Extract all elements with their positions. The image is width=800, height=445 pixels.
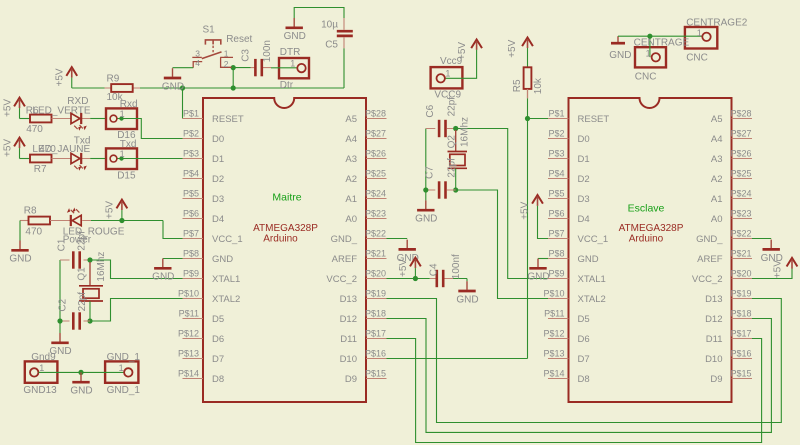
svg-text:P$23: P$23 bbox=[731, 209, 752, 219]
U1 pin P$19 (D13) stub bbox=[366, 298, 387, 300]
svg-text:2: 2 bbox=[224, 59, 229, 69]
svg-text:P$15: P$15 bbox=[365, 369, 386, 379]
capacitor C1 leads bbox=[60, 259, 90, 261]
capacitor C2 leads bbox=[60, 320, 90, 322]
wire C1 left to C2 left vertical bbox=[59, 260, 61, 321]
+5V supply symbol above Vcc9 bbox=[457, 40, 482, 61]
svg-text:P$20: P$20 bbox=[731, 269, 752, 279]
svg-text:P$3: P$3 bbox=[183, 149, 199, 159]
svg-text:DTR: DTR bbox=[280, 47, 301, 58]
svg-text:P$18: P$18 bbox=[731, 309, 752, 319]
svg-text:+5V: +5V bbox=[457, 42, 468, 60]
svg-text:P$2: P$2 bbox=[548, 129, 564, 139]
svg-text:P$5: P$5 bbox=[548, 189, 564, 199]
svg-text:AREF: AREF bbox=[332, 254, 358, 265]
U2 pin P$14 (D8) stub bbox=[548, 378, 569, 380]
wire reset net horizontal bbox=[140, 87, 344, 89]
capacitor C3 leads bbox=[251, 67, 272, 69]
U1 pin P$25 (A2) stub bbox=[366, 178, 387, 180]
ground below C7 bbox=[415, 200, 437, 224]
svg-text:P$27: P$27 bbox=[365, 129, 386, 139]
svg-text:D3: D3 bbox=[578, 194, 590, 205]
svg-text:P$28: P$28 bbox=[365, 109, 386, 119]
ground at IC1 P$8 bbox=[152, 259, 174, 283]
svg-text:100n: 100n bbox=[262, 40, 273, 62]
svg-text:GND: GND bbox=[284, 31, 306, 42]
capacitor C1 plates bbox=[73, 251, 79, 268]
resistor R5 leads bbox=[527, 89, 529, 99]
svg-text:P$6: P$6 bbox=[548, 209, 564, 219]
U2 pin P$16 (D10) stub bbox=[732, 358, 753, 360]
connector CENTRAGE2 pin circle bbox=[702, 33, 710, 41]
U1 pin P$2 (D0) stub bbox=[183, 138, 204, 140]
resistor R7 body bbox=[30, 155, 52, 163]
junction C1 / Q1 top bbox=[87, 257, 92, 262]
svg-text:XTAL2: XTAL2 bbox=[212, 294, 240, 305]
svg-text:P$15: P$15 bbox=[731, 369, 752, 379]
wire switch pin2 down to reset net bbox=[232, 68, 234, 88]
svg-text:D6: D6 bbox=[578, 334, 590, 345]
U2 pin P$24 (A1) stub bbox=[732, 198, 753, 200]
wire R8 to ground bbox=[19, 221, 21, 241]
junction C2 / Q1 bottom bbox=[87, 318, 92, 323]
ground at IC2 P$22 bbox=[761, 240, 783, 264]
svg-text:P$9: P$9 bbox=[183, 269, 199, 279]
svg-text:P$21: P$21 bbox=[365, 249, 386, 259]
svg-text:R7: R7 bbox=[34, 164, 47, 175]
LED yellow (TXD) bbox=[71, 153, 87, 171]
svg-text:P$24: P$24 bbox=[731, 189, 752, 199]
svg-text:P$8: P$8 bbox=[548, 249, 564, 259]
svg-text:22pf: 22pf bbox=[77, 292, 88, 312]
svg-text:C1: C1 bbox=[57, 238, 68, 251]
U2 pin P$6 (D4) stub bbox=[548, 218, 569, 220]
junction switch pin 2 / C3 bbox=[231, 65, 236, 70]
svg-text:RESET: RESET bbox=[578, 114, 610, 125]
svg-text:P$22: P$22 bbox=[731, 229, 752, 239]
capacitor C3 plates bbox=[255, 59, 261, 76]
resistor R8 body bbox=[29, 217, 51, 225]
svg-text:Rxd: Rxd bbox=[120, 99, 138, 110]
svg-text:P$19: P$19 bbox=[365, 289, 386, 299]
connector GND_1 pin circle bbox=[124, 368, 132, 376]
svg-text:P$26: P$26 bbox=[365, 149, 386, 159]
U1 pin P$21 (AREF) stub bbox=[366, 258, 387, 260]
+5V supply symbol LED_ROUGE row bbox=[105, 200, 128, 221]
svg-text:C3: C3 bbox=[240, 49, 251, 62]
junction C7 / Q2 bottom bbox=[453, 187, 458, 192]
svg-text:A3: A3 bbox=[711, 154, 723, 165]
svg-text:Q2: Q2 bbox=[447, 135, 458, 149]
svg-text:D13: D13 bbox=[340, 294, 357, 305]
U1 pin P$11 (D5) stub bbox=[183, 318, 204, 320]
U1 pin P$12 (D6) stub bbox=[183, 338, 204, 340]
svg-text:P$20: P$20 bbox=[365, 269, 386, 279]
svg-text:Q1: Q1 bbox=[77, 267, 88, 281]
U2 pin P$27 (A4) stub bbox=[732, 138, 753, 140]
connector CENTRAGE2 box bbox=[685, 27, 717, 49]
capacitor C4 plates bbox=[437, 270, 443, 287]
svg-text:R5: R5 bbox=[512, 79, 523, 92]
svg-text:1: 1 bbox=[39, 363, 44, 373]
svg-text:D9: D9 bbox=[345, 374, 357, 385]
U2 pin P$21 (AREF) stub bbox=[732, 258, 753, 260]
svg-text:A1: A1 bbox=[711, 194, 723, 205]
svg-text:A4: A4 bbox=[345, 134, 357, 145]
svg-text:D11: D11 bbox=[706, 334, 723, 345]
svg-text:A3: A3 bbox=[345, 154, 357, 165]
connector Gnd9 box bbox=[25, 361, 58, 382]
wire crystal top to IC2 XTAL1 (P$9) bbox=[456, 129, 549, 279]
wire P$22 (GND_) to ground bbox=[387, 238, 408, 240]
svg-text:A2: A2 bbox=[711, 174, 723, 185]
ground between connectors bbox=[70, 372, 92, 396]
ground at CENTRAGE bbox=[609, 36, 631, 61]
svg-text:1: 1 bbox=[120, 109, 125, 119]
svg-text:GND: GND bbox=[527, 272, 549, 283]
svg-text:D2: D2 bbox=[212, 174, 224, 185]
wire crystal bottom to IC2 XTAL2 (P$10) bbox=[456, 190, 549, 299]
connector Vcc9 pin circle bbox=[437, 74, 445, 82]
svg-text:10µ: 10µ bbox=[321, 20, 338, 31]
wire C5 top to ground bbox=[294, 8, 344, 19]
svg-text:P$3: P$3 bbox=[548, 149, 564, 159]
resistor R7 / LED leads bbox=[52, 158, 91, 160]
svg-text:+5V: +5V bbox=[398, 259, 409, 277]
U2 pin P$2 (D0) stub bbox=[548, 138, 569, 140]
svg-text:A2: A2 bbox=[345, 174, 357, 185]
svg-text:Esclave: Esclave bbox=[628, 202, 665, 214]
connector Vcc9 box bbox=[431, 67, 463, 88]
ground at IC1 P$22 bbox=[397, 240, 419, 264]
+5V supply symbol LED_VERTE row bbox=[2, 98, 25, 119]
svg-text:XTAL1: XTAL1 bbox=[578, 274, 606, 285]
svg-text:P$26: P$26 bbox=[731, 149, 752, 159]
svg-text:P$7: P$7 bbox=[183, 229, 199, 239]
U2 pin P$18 (D12) stub bbox=[732, 318, 753, 320]
svg-text:470: 470 bbox=[26, 124, 43, 135]
wire switch pin4 to ground bbox=[173, 67, 194, 69]
wire P$20 (VCC_2) to +5V and C4 bbox=[387, 278, 430, 280]
wire IC2 P$20 (VCC_2) to +5V bbox=[752, 268, 792, 278]
svg-text:470: 470 bbox=[39, 144, 56, 155]
svg-text:P$16: P$16 bbox=[365, 349, 386, 359]
svg-text:XTAL2: XTAL2 bbox=[578, 294, 606, 305]
connector DTR box bbox=[279, 58, 309, 78]
resistor R9 leads bbox=[105, 87, 141, 89]
svg-text:CENTRAGE2: CENTRAGE2 bbox=[686, 17, 748, 28]
svg-text:P$1: P$1 bbox=[548, 109, 564, 119]
crystal Q1 bottom lead bbox=[89, 301, 91, 321]
svg-text:RESET: RESET bbox=[212, 114, 244, 125]
svg-text:1: 1 bbox=[697, 28, 702, 38]
svg-text:D10: D10 bbox=[705, 354, 722, 365]
svg-text:VCC_2: VCC_2 bbox=[326, 274, 357, 285]
svg-text:16Mhz: 16Mhz bbox=[96, 252, 107, 282]
svg-text:D13: D13 bbox=[705, 294, 722, 305]
svg-text:A0: A0 bbox=[345, 214, 357, 225]
svg-text:D8: D8 bbox=[578, 374, 590, 385]
U1 pin P$7 (VCC_1) stub bbox=[183, 238, 204, 240]
svg-text:VCC_1: VCC_1 bbox=[212, 234, 243, 245]
svg-text:10k: 10k bbox=[533, 77, 544, 94]
IC U2 ATMEGA328P Arduino (Esclave) body bbox=[569, 98, 732, 402]
svg-text:1: 1 bbox=[119, 363, 124, 373]
wire LED to D16 bbox=[90, 118, 106, 120]
U1 pin P$8 (GND) stub bbox=[183, 258, 204, 260]
svg-text:P$10: P$10 bbox=[178, 289, 199, 299]
svg-text:D6: D6 bbox=[212, 334, 224, 345]
svg-text:C5: C5 bbox=[325, 40, 338, 51]
svg-text:Dtr: Dtr bbox=[280, 80, 294, 91]
+5V supply symbol LED_JAUNE row bbox=[2, 138, 25, 159]
svg-text:D7: D7 bbox=[578, 354, 590, 365]
svg-text:GND: GND bbox=[162, 81, 184, 92]
ground below R8 bbox=[9, 241, 31, 265]
ground above C5 bbox=[284, 18, 306, 42]
wire C7 left down to ground bbox=[425, 190, 427, 200]
svg-text:GND: GND bbox=[415, 214, 437, 225]
svg-text:3: 3 bbox=[195, 49, 200, 59]
svg-text:C2: C2 bbox=[57, 298, 68, 311]
svg-text:+5V: +5V bbox=[773, 260, 784, 278]
crystal Q2 bottom lead bbox=[455, 169, 457, 191]
svg-text:GND_: GND_ bbox=[696, 234, 723, 245]
svg-text:D10: D10 bbox=[340, 354, 357, 365]
svg-text:P$27: P$27 bbox=[731, 129, 752, 139]
wire to IC2 P$1 (RESET) bbox=[528, 118, 549, 120]
svg-text:P$18: P$18 bbox=[365, 309, 386, 319]
U1 pin P$23 (A0) stub bbox=[366, 218, 387, 220]
+5V supply symbol at IC1 P$20 bbox=[398, 258, 421, 279]
wire junction to C3 bbox=[233, 67, 250, 69]
svg-text:P$24: P$24 bbox=[365, 189, 386, 199]
U2 pin P$4 (D2) stub bbox=[548, 178, 569, 180]
capacitor C6 plates bbox=[439, 120, 445, 137]
U1 pin P$17 (D11) stub bbox=[366, 338, 387, 340]
wire C6 left to C7 left vertical bbox=[425, 129, 427, 191]
wire IC1 P$16 (D10) to slave reset bbox=[387, 358, 528, 360]
U2 pin P$26 (A3) stub bbox=[732, 158, 753, 160]
U1 pin P$24 (A1) stub bbox=[366, 198, 387, 200]
svg-text:CENTRAGE: CENTRAGE bbox=[634, 38, 690, 49]
svg-text:D9: D9 bbox=[710, 374, 722, 385]
resistor R6 body bbox=[30, 115, 52, 123]
connector D16 pin circle bbox=[110, 115, 117, 122]
U2 pin P$9 (XTAL1) stub bbox=[548, 278, 569, 280]
U1 pin P$13 (D7) stub bbox=[183, 358, 204, 360]
svg-text:D1: D1 bbox=[578, 154, 590, 165]
svg-text:GND13: GND13 bbox=[23, 385, 57, 396]
connector CENTRAGE box bbox=[635, 47, 666, 67]
svg-text:+5V: +5V bbox=[520, 201, 531, 219]
+5V supply symbol at IC2 P$7 bbox=[520, 195, 543, 220]
svg-text:D8: D8 bbox=[212, 374, 224, 385]
svg-text:XTAL1: XTAL1 bbox=[212, 274, 240, 285]
svg-text:P$7: P$7 bbox=[548, 229, 564, 239]
U1 pin P$4 (D2) stub bbox=[183, 178, 204, 180]
U1 pin P$22 (GND_) stub bbox=[366, 238, 387, 240]
svg-text:P$13: P$13 bbox=[178, 349, 199, 359]
svg-text:22pf: 22pf bbox=[77, 231, 88, 251]
wire bus D11-MOSI (IC1 P$17 to IC2 P$17) bbox=[387, 339, 762, 443]
svg-text:P$19: P$19 bbox=[731, 289, 752, 299]
svg-text:1: 1 bbox=[290, 59, 295, 69]
svg-text:VCC_2: VCC_2 bbox=[692, 274, 723, 285]
wire C4 to ground bbox=[453, 279, 467, 282]
svg-text:A1: A1 bbox=[345, 194, 357, 205]
U2 pin P$17 (D11) stub bbox=[732, 338, 753, 340]
svg-text:P$11: P$11 bbox=[179, 309, 199, 319]
capacitor C5 leads bbox=[343, 18, 345, 48]
junction A on reset net bbox=[180, 85, 185, 90]
svg-text:+5V: +5V bbox=[507, 39, 518, 57]
svg-text:VCC_1: VCC_1 bbox=[578, 234, 609, 245]
svg-text:P$22: P$22 bbox=[365, 229, 386, 239]
svg-text:Txd: Txd bbox=[120, 139, 137, 150]
wire +5V to R7 bbox=[20, 158, 31, 160]
wire Gnd9 to GND_1 bbox=[39, 371, 124, 373]
connector CENTRAGE pin circle bbox=[652, 53, 660, 61]
svg-text:CNC: CNC bbox=[686, 53, 708, 64]
wire C3 to DTR pin bbox=[271, 67, 297, 69]
U1 pin P$27 (A4) stub bbox=[366, 138, 387, 140]
capacitor C6 leads bbox=[426, 128, 456, 130]
U1 pin P$15 (D9) stub bbox=[366, 378, 387, 380]
svg-text:+5V: +5V bbox=[2, 139, 13, 157]
svg-text:GND: GND bbox=[578, 254, 599, 265]
junction P$20 / +5V / C4 bbox=[413, 276, 418, 281]
svg-text:P$6: P$6 bbox=[183, 209, 199, 219]
svg-text:P$5: P$5 bbox=[183, 189, 199, 199]
svg-text:S1: S1 bbox=[203, 24, 216, 35]
svg-text:P$13: P$13 bbox=[543, 349, 564, 359]
U1 pin P$28 (A5) stub bbox=[366, 118, 387, 120]
U2 pin P$7 (VCC_1) stub bbox=[548, 238, 569, 240]
U2 pin P$20 (VCC_2) stub bbox=[732, 278, 753, 280]
svg-text:22pf: 22pf bbox=[447, 158, 458, 178]
svg-text:P$25: P$25 bbox=[365, 169, 386, 179]
svg-text:GND: GND bbox=[70, 386, 92, 397]
svg-text:D4: D4 bbox=[212, 214, 224, 225]
+5V supply symbol above R5 bbox=[507, 38, 533, 68]
svg-text:AREF: AREF bbox=[697, 254, 723, 265]
U2 pin P$1 (RESET) stub bbox=[548, 118, 569, 120]
wire junction A down to P$1 RESET bbox=[182, 88, 184, 119]
svg-text:P$14: P$14 bbox=[178, 369, 199, 379]
svg-text:D4: D4 bbox=[578, 214, 590, 225]
wire junction down to CENTRAGE pin bbox=[649, 36, 651, 57]
wire D15 pin to P$3 (D1) bbox=[117, 158, 182, 160]
svg-text:P$12: P$12 bbox=[178, 329, 199, 339]
svg-text:A0: A0 bbox=[711, 214, 723, 225]
svg-text:D7: D7 bbox=[212, 354, 224, 365]
U2 pin P$15 (D9) stub bbox=[732, 378, 753, 380]
connector D16 box bbox=[106, 108, 137, 129]
svg-text:D2: D2 bbox=[578, 174, 590, 185]
junction on ground wire bbox=[78, 370, 83, 375]
svg-text:D12: D12 bbox=[705, 314, 722, 325]
ground at C4 bbox=[456, 281, 478, 305]
svg-text:R9: R9 bbox=[107, 73, 120, 84]
U2 pin P$28 (A5) stub bbox=[732, 118, 753, 120]
U2 pin P$23 (A0) stub bbox=[732, 218, 753, 220]
resistor R6 / LED D? leads bbox=[52, 118, 91, 120]
svg-text:+5V: +5V bbox=[2, 99, 13, 117]
svg-text:P$2: P$2 bbox=[183, 129, 199, 139]
svg-text:P$8: P$8 bbox=[183, 249, 199, 259]
svg-text:P$4: P$4 bbox=[548, 169, 564, 179]
svg-text:GND: GND bbox=[152, 272, 174, 283]
wire IC2 P$8 (GND) to ground bbox=[538, 258, 549, 260]
svg-text:GND: GND bbox=[609, 50, 631, 61]
capacitor C7 leads bbox=[426, 189, 456, 191]
U1 pin P$6 (D4) stub bbox=[183, 218, 204, 220]
+5V supply symbol at IC2 P$20 bbox=[773, 258, 798, 278]
svg-text:P$17: P$17 bbox=[365, 329, 386, 339]
resistor R9 body bbox=[111, 84, 133, 92]
IC U1 ATMEGA328P Arduino (Maitre) body bbox=[203, 98, 366, 402]
svg-text:A4: A4 bbox=[711, 134, 723, 145]
wire C2 left down to ground bbox=[59, 321, 61, 333]
ground below C2 bbox=[49, 333, 71, 357]
svg-text:P$16: P$16 bbox=[731, 349, 752, 359]
wire Vcc9 pin to +5V bbox=[445, 50, 477, 79]
U2 pin P$13 (D7) stub bbox=[548, 358, 569, 360]
svg-text:Arduino: Arduino bbox=[263, 233, 298, 244]
U2 pin P$3 (D1) stub bbox=[548, 158, 569, 160]
svg-text:+5V: +5V bbox=[55, 68, 66, 86]
svg-text:D0: D0 bbox=[578, 134, 590, 145]
wire crystal top to XTAL1 (P$9) bbox=[90, 260, 183, 279]
wire R5 to junction bbox=[527, 98, 529, 118]
svg-text:Arduino: Arduino bbox=[629, 233, 664, 244]
U1 pin P$10 (XTAL2) stub bbox=[183, 298, 204, 300]
svg-text:Reset: Reset bbox=[226, 34, 252, 45]
svg-text:+5V: +5V bbox=[105, 201, 116, 219]
U1 pin P$9 (XTAL1) stub bbox=[183, 278, 204, 280]
svg-text:22pf: 22pf bbox=[447, 97, 458, 117]
+5V supply symbol near R9 bbox=[55, 67, 78, 88]
wire LED to D15 bbox=[90, 158, 106, 160]
wire IC2 P$22 (GND_) to ground bbox=[752, 238, 771, 240]
svg-text:P$14: P$14 bbox=[543, 369, 564, 379]
junction R5 / P$1 / D10 net bbox=[525, 116, 530, 121]
junction at D16 pin bbox=[119, 116, 123, 120]
wire +5V to R6 bbox=[20, 118, 31, 120]
svg-text:D5: D5 bbox=[212, 314, 224, 325]
crystal Q1 bbox=[79, 262, 103, 301]
svg-text:16Mhz: 16Mhz bbox=[460, 117, 471, 147]
svg-text:GND: GND bbox=[212, 254, 233, 265]
svg-text:A5: A5 bbox=[345, 114, 357, 125]
U2 pin P$8 (GND) stub bbox=[548, 258, 569, 260]
svg-text:C7: C7 bbox=[424, 166, 435, 179]
svg-text:100nf: 100nf bbox=[451, 254, 462, 279]
capacitor C4 leads bbox=[430, 278, 453, 280]
svg-text:P$1: P$1 bbox=[183, 109, 199, 119]
junction C2 left / ground bbox=[57, 318, 62, 323]
svg-text:D1: D1 bbox=[212, 154, 224, 165]
capacitor C7 plates bbox=[439, 181, 445, 198]
svg-text:C6: C6 bbox=[425, 104, 436, 117]
U1 pin P$5 (D3) stub bbox=[183, 198, 204, 200]
capacitor C2 plates bbox=[73, 312, 79, 329]
U2 pin P$25 (A2) stub bbox=[732, 178, 753, 180]
U1 pin P$18 (D12) stub bbox=[366, 318, 387, 320]
wire IC2 P$7 (VCC_1) to +5V bbox=[538, 206, 549, 239]
svg-text:Txd: Txd bbox=[74, 136, 91, 147]
